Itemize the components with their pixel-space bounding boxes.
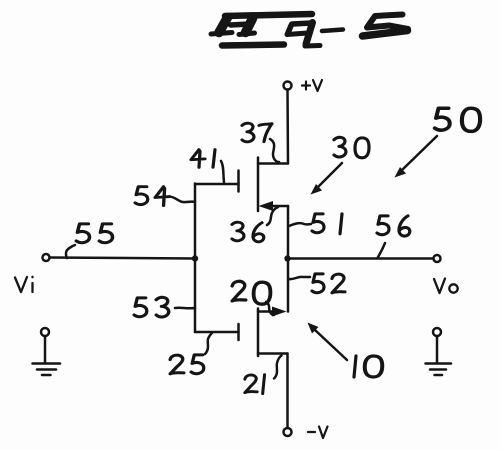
upper channel [257,158,260,212]
leader 37 [270,139,279,162]
label 10 [354,356,382,377]
lower source lead [258,352,288,355]
label 37 [242,123,272,142]
wire +V to upper transistor [286,90,289,164]
label 56 [377,216,410,236]
lower channel [257,309,260,357]
gate rail wire [194,184,197,333]
transistor 30 upper (p-channel) [195,158,288,260]
label 52 [312,274,345,293]
wire lower source to -V [286,354,289,429]
label 54 [135,187,170,206]
output terminal circle [434,255,441,262]
upper gate lead [195,183,239,186]
label 36 [232,222,264,242]
lower gate lead [195,331,239,334]
wire input [50,258,196,259]
label -V [308,427,328,439]
upper drain wire down [287,206,290,259]
lower drain lead with arrow toward wire [258,310,276,313]
label +V [302,80,322,91]
leader 52 [289,277,310,279]
input terminal circle [43,254,50,261]
label 20 [232,281,270,304]
label 51 [312,214,342,234]
upper drain lead with arrow into channel [269,205,288,208]
leader 36 [267,207,278,225]
label Vo [434,279,458,294]
label 41 [191,150,215,168]
terminal +V [284,82,292,90]
label 53 [134,297,169,317]
ground right [426,328,452,375]
lower drain wire down from node [287,259,290,312]
leader 51 [289,223,311,226]
leader 21 [274,356,282,379]
wire output [288,257,433,260]
arrow 50 [395,136,438,178]
label 21 [245,375,265,394]
label Vi [15,277,33,292]
label 30 [334,137,369,157]
node input junction [192,255,198,261]
arrow 30 [311,163,343,195]
leader 25 [205,333,212,354]
ground left [33,328,61,375]
leader 55 [66,245,75,258]
leader 56 [378,243,385,257]
lower gate bar [237,324,240,340]
leader 41 [221,161,224,182]
arrow 10 [308,323,348,361]
label 50 [435,108,480,131]
leader 53 [175,306,195,309]
terminal -V [284,428,292,436]
leader 20 [266,302,274,315]
transistor 10 lower (n-channel) [195,259,288,356]
upper gate bar [237,171,240,192]
label 25 [170,355,204,374]
node output junction [284,255,290,261]
label 55 [76,224,112,243]
leader 54 [172,197,195,202]
title Fig-5 [211,14,408,46]
upper source lead [258,162,288,165]
